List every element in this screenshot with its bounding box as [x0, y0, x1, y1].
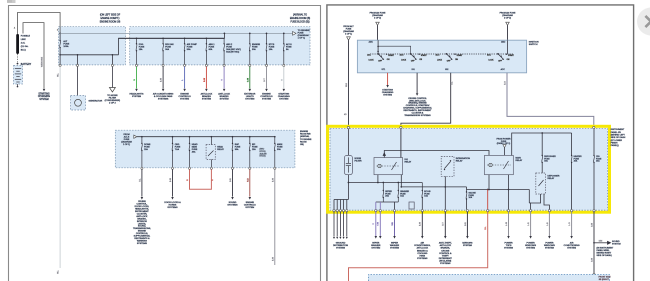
svg-text:IGNITION: IGNITION	[529, 42, 539, 44]
svg-text:CIG: CIG	[596, 156, 600, 158]
svg-text:V-R: V-R	[392, 222, 394, 226]
svg-text:SYSTEM: SYSTEM	[336, 248, 345, 250]
svg-text:ENGINE: ENGINE	[262, 93, 271, 95]
svg-text:SYSTEMS: SYSTEMS	[158, 98, 169, 100]
svg-text:WIPER: WIPER	[391, 243, 398, 245]
svg-text:FUSE: FUSE	[192, 149, 198, 151]
svg-text:DETERRENT: DETERRENT	[439, 258, 453, 260]
svg-text:TO NOISE: TO NOISE	[107, 95, 118, 97]
svg-text:ETCS: ETCS	[269, 44, 275, 46]
svg-text:HORNS: HORNS	[169, 204, 177, 206]
svg-text:CRUISE CONTROL: CRUISE CONTROL	[408, 98, 427, 100]
svg-text:1 OF 2): 1 OF 2)	[374, 18, 381, 20]
svg-text:2 OF 2): 2 OF 2)	[504, 18, 511, 20]
svg-text:SYSTEM: SYSTEM	[504, 248, 513, 250]
svg-text:LOCK: LOCK	[437, 60, 443, 62]
svg-text:SYSTEM: SYSTEM	[202, 98, 211, 100]
svg-text:(CONDENSER): (CONDENSER)	[105, 100, 121, 102]
svg-text:WINDOWS: WINDOWS	[544, 245, 555, 247]
svg-text:FUSE: FUSE	[235, 147, 241, 149]
svg-text:FINISH: FINISH	[611, 142, 618, 144]
svg-text:J/B): J/B)	[300, 144, 304, 146]
svg-text:SYSTEM: SYSTEM	[220, 98, 229, 100]
svg-text:LINK: LINK	[21, 39, 26, 41]
svg-text:G-W: G-W	[591, 223, 593, 227]
svg-text:CONTROLS: CONTROLS	[179, 96, 192, 98]
svg-text:ETCS): ETCS)	[260, 151, 266, 153]
svg-text:SYSTEM: SYSTEM	[612, 244, 621, 246]
svg-text:(W/O: (W/O	[260, 149, 265, 151]
svg-text:CONTROLS,: CONTROLS,	[136, 233, 149, 235]
svg-text:DIM: DIM	[599, 241, 603, 243]
svg-text:EFI: EFI	[252, 144, 256, 146]
svg-text:SYSTEM: SYSTEM	[245, 207, 254, 209]
svg-text:L-W: L-W	[506, 222, 508, 226]
svg-text:POWER: POWER	[545, 243, 554, 245]
svg-text:FROM POWER: FROM POWER	[497, 138, 512, 140]
svg-text:(ON LEFT SIDE OF: (ON LEFT SIDE OF	[100, 15, 121, 17]
svg-text:ENGINE: ENGINE	[252, 44, 261, 46]
svg-text:NOISE: NOISE	[355, 158, 362, 160]
svg-text:B-W: B-W	[170, 178, 172, 182]
svg-text:FUSE: FUSE	[269, 47, 275, 49]
svg-text:SOUND,: SOUND,	[138, 226, 147, 228]
svg-text:SWITCH: SWITCH	[529, 44, 538, 46]
svg-text:LOCK: LOCK	[401, 60, 407, 62]
svg-text:TO ENGINE: TO ENGINE	[298, 30, 311, 32]
svg-text:FUSE: FUSE	[424, 193, 430, 195]
svg-text:FUSE: FUSE	[277, 147, 283, 149]
svg-text:DOME: DOME	[144, 144, 151, 146]
svg-text:DEFOGGER: DEFOGGER	[544, 156, 556, 158]
svg-text:FUSE: FUSE	[385, 193, 391, 195]
svg-text:SYSTEMS: SYSTEMS	[137, 243, 148, 245]
svg-text:SYSTEM: SYSTEM	[279, 98, 288, 100]
svg-text:1 OF 1): 1 OF 1)	[345, 34, 352, 36]
svg-text:WIPER: WIPER	[372, 243, 379, 245]
svg-text:LOCK: LOCK	[369, 60, 375, 62]
svg-text:FUSE: FUSE	[286, 47, 292, 49]
svg-text:INTERIOR: INTERIOR	[137, 221, 147, 223]
svg-text:MIRRORS: MIRRORS	[462, 243, 473, 245]
svg-text:CONDITIONING: CONDITIONING	[564, 245, 580, 247]
svg-text:ECU-B: ECU-B	[424, 191, 431, 193]
svg-text:SYSTEM: SYSTEM	[39, 99, 48, 101]
svg-text:FUSE: FUSE	[226, 47, 232, 49]
svg-text:WIPER: WIPER	[385, 191, 392, 193]
svg-text:INSTRUMENT: INSTRUMENT	[611, 129, 625, 131]
svg-text:CONTROLS: CONTROLS	[260, 96, 273, 98]
svg-text:FUSE BLOCK (B)): FUSE BLOCK (B))	[290, 21, 309, 23]
svg-text:(BEHIND LEFT: (BEHIND LEFT	[611, 135, 626, 137]
svg-text:FUSE: FUSE	[596, 158, 602, 160]
svg-text:FROM: FROM	[123, 134, 129, 136]
svg-text:FUSE: FUSE	[544, 158, 550, 160]
svg-text:SYSTEM: SYSTEM	[463, 245, 472, 247]
svg-text:TO ENGINE: TO ENGINE	[300, 139, 312, 141]
svg-text:ENGINE COMPT.): ENGINE COMPT.)	[101, 18, 120, 20]
svg-text:INSTRUMENT: INSTRUMENT	[135, 211, 149, 213]
svg-text:FUSE: FUSE	[209, 47, 215, 49]
svg-text:SYSTEMS: SYSTEMS	[440, 263, 451, 265]
svg-text:SYSTEMS: SYSTEMS	[417, 258, 428, 260]
svg-text:B-W: B-W	[161, 78, 163, 82]
svg-text:SYSTEM: SYSTEM	[132, 96, 141, 98]
svg-text:FUSE: FUSE	[298, 32, 304, 34]
svg-text:ENGINE: ENGINE	[300, 131, 309, 133]
svg-text:BLU): BLU)	[21, 50, 26, 52]
svg-text:TOPS: TOPS	[506, 245, 512, 247]
svg-text:POWER: POWER	[504, 243, 513, 245]
svg-text:B-W: B-W	[272, 257, 274, 261]
svg-text:DOOR LOCKS &: DOOR LOCKS &	[164, 202, 181, 204]
svg-text:FUSE: FUSE	[501, 141, 507, 143]
svg-text:W: W	[281, 79, 283, 81]
svg-text:THEFT: THEFT	[442, 255, 450, 257]
svg-text:B-R: B-R	[230, 178, 232, 182]
svg-text:FUSE: FUSE	[165, 47, 171, 49]
svg-text:L-R: L-R	[528, 222, 530, 226]
svg-text:W-R: W-R	[346, 82, 348, 87]
svg-text:CONTROL,: CONTROL,	[137, 204, 148, 206]
svg-text:POWER: POWER	[527, 243, 536, 245]
svg-text:1 OF 1): 1 OF 1)	[298, 38, 306, 40]
svg-text:FRONT SIDE: FRONT SIDE	[599, 277, 612, 279]
svg-text:SOUND: SOUND	[229, 202, 237, 204]
svg-text:2 OF 2: 2 OF 2	[109, 103, 116, 105]
svg-text:FUSE: FUSE	[469, 195, 475, 197]
svg-text:1 OF 1): 1 OF 1)	[123, 144, 130, 146]
svg-text:FUSE: FUSE	[187, 47, 193, 49]
svg-text:FILTER: FILTER	[109, 98, 117, 100]
svg-text:LIGHTS,: LIGHTS,	[138, 223, 147, 225]
svg-text:W/ENGINE: W/ENGINE	[42, 56, 44, 67]
svg-text:R-W: R-W	[204, 78, 206, 82]
svg-text:ROOM: ROOM	[300, 141, 307, 143]
svg-text:ETCS): ETCS)	[260, 156, 266, 158]
svg-text:FUSE: FUSE	[144, 147, 150, 149]
svg-text:CLUSTER &: CLUSTER &	[412, 113, 424, 115]
svg-text:G-W: G-W	[247, 78, 249, 82]
svg-text:B-W: B-W	[272, 178, 274, 182]
svg-text:SYSTEMS: SYSTEMS	[167, 207, 178, 209]
svg-text:FUSE: FUSE	[574, 158, 580, 160]
svg-text:ENGINE ROOM (B): ENGINE ROOM (B)	[290, 18, 311, 20]
svg-text:DOOR LOCKS,: DOOR LOCKS,	[135, 206, 150, 208]
svg-text:EXTERIOR: EXTERIOR	[244, 93, 256, 95]
svg-text:FUSE: FUSE	[400, 193, 406, 195]
svg-text:FUSE: FUSE	[175, 147, 181, 149]
svg-text:SYSTEM: SYSTEM	[180, 98, 189, 100]
svg-text:(IN INSTRUMENT: (IN INSTRUMENT	[597, 247, 614, 249]
svg-text:SYSTEM: SYSTEM	[383, 95, 392, 97]
svg-text:CLUSTER,: CLUSTER,	[137, 213, 148, 215]
svg-text:V-W: V-W	[378, 222, 380, 226]
svg-text:FUSE: FUSE	[252, 47, 258, 49]
svg-text:ROOM R/B: ROOM R/B	[300, 134, 311, 136]
svg-text:BEHIND RIGHT: BEHIND RIGHT	[597, 253, 612, 255]
svg-text:DISTRIBUTION: DISTRIBUTION	[333, 245, 349, 247]
svg-text:G-W: G-W	[591, 258, 593, 262]
svg-text:B-R: B-R	[465, 222, 467, 226]
svg-text:FUSE: FUSE	[346, 29, 352, 31]
svg-text:OBD: OBD	[175, 144, 180, 146]
svg-text:CONTROLS: CONTROLS	[244, 204, 256, 206]
svg-text:SOUND: SOUND	[612, 241, 620, 243]
svg-text:FILTER: FILTER	[355, 160, 363, 162]
svg-text:SYSTEM: SYSTEM	[567, 248, 576, 250]
svg-text:SYSTEM: SYSTEM	[262, 98, 271, 100]
svg-text:SYSTEM: SYSTEM	[371, 248, 380, 250]
svg-text:FUSE: FUSE	[124, 139, 130, 141]
svg-text:ENGINE ROOM J/B: ENGINE ROOM J/B	[100, 21, 121, 23]
svg-text:ENGINE: ENGINE	[246, 202, 255, 204]
svg-text:FUSE: FUSE	[139, 47, 145, 49]
svg-text:FUSE: FUSE	[252, 147, 258, 149]
svg-text:FUSIBLE: FUSIBLE	[21, 36, 31, 38]
svg-text:SYSTEMS: SYSTEMS	[227, 204, 238, 206]
svg-text:GROUND: GROUND	[336, 243, 346, 245]
svg-text:B-W: B-W	[420, 222, 422, 226]
svg-text:L-O: L-O	[569, 222, 571, 226]
svg-text:ENGINE: ENGINE	[138, 231, 147, 233]
svg-text:B-O: B-O	[504, 81, 506, 85]
svg-text:FUSE: FUSE	[63, 44, 69, 46]
svg-text:CONTROL &: CONTROL &	[439, 253, 452, 255]
svg-text:CRUISE: CRUISE	[138, 201, 146, 203]
svg-text:CRUISE: CRUISE	[441, 250, 450, 252]
svg-text:CONDITIONING,: CONDITIONING,	[414, 245, 431, 247]
svg-text:COOLING: COOLING	[417, 253, 427, 255]
svg-text:SYSTEM: SYSTEM	[526, 248, 535, 250]
svg-text:WINDOWS: WINDOWS	[525, 245, 536, 247]
svg-text:SYSTEM: SYSTEM	[390, 248, 399, 250]
svg-text:FOG: FOG	[139, 44, 144, 46]
svg-text:SYSTEM: SYSTEM	[245, 98, 254, 100]
svg-text:SYSTEM: SYSTEM	[545, 248, 554, 250]
svg-text:ENGINE: ENGINE	[180, 93, 189, 95]
svg-text:LIGHTS: LIGHTS	[246, 96, 254, 98]
svg-text:DEFOGGER: DEFOGGER	[548, 175, 560, 177]
svg-text:LOCK: LOCK	[489, 60, 495, 62]
